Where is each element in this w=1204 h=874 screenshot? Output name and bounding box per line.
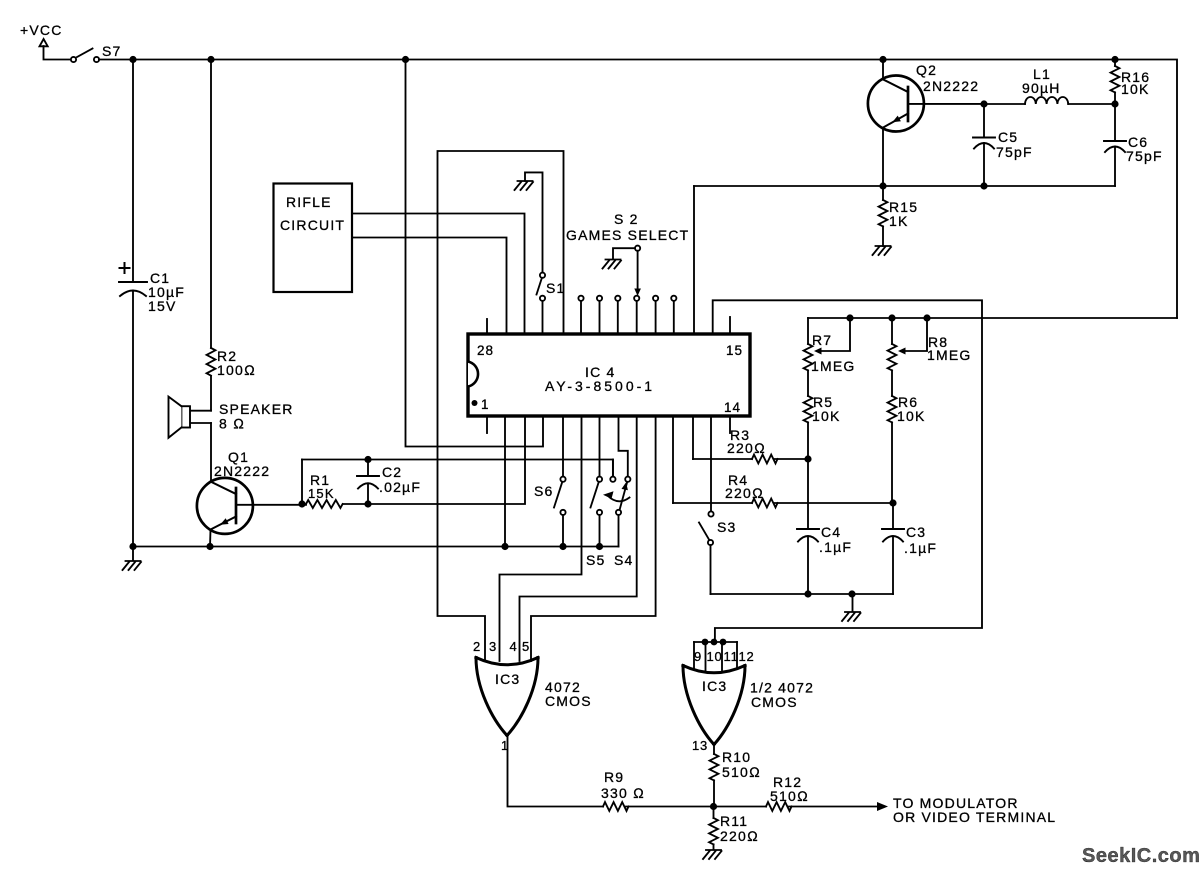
resistor R9 330 (601, 769, 645, 811)
svg-text:12: 12 (739, 649, 755, 664)
svg-text:15: 15 (726, 343, 743, 358)
node junction Q2-collector/rail (879, 56, 886, 63)
svg-text:R7: R7 (812, 332, 832, 348)
resistor R12 510 (714, 774, 809, 811)
ground (bottom-left) (123, 547, 142, 571)
node junction C2 top (364, 456, 371, 463)
wire R7/R8 top node line (y318) (808, 317, 1177, 319)
wire C4/C3 ground rail (711, 593, 894, 595)
node junction C5 bottom (980, 182, 987, 189)
svg-text:CIRCUIT: CIRCUIT (280, 217, 345, 233)
node junction gnd symbol/rail (848, 590, 855, 597)
wire IC pin to Q2 emitter rail (693, 186, 695, 334)
wire IC pin to R4 line (672, 416, 674, 503)
svg-text:75pF: 75pF (1126, 148, 1163, 164)
svg-text:C4: C4 (821, 524, 841, 540)
or-gate IC3b (1/2 4072) (683, 639, 814, 753)
node junction R3/R5/C4 (804, 455, 811, 462)
svg-text:.1µF: .1µF (819, 539, 852, 555)
svg-text:4: 4 (510, 639, 518, 654)
svg-text:IC3: IC3 (702, 678, 727, 694)
inductor L1 90uH (984, 66, 1115, 104)
resistor R5 10K (804, 370, 841, 459)
pin contact D (636, 301, 638, 334)
node junction C2 bottom (364, 500, 371, 507)
wire ground rail left (133, 546, 619, 548)
wire R4 line (673, 502, 893, 504)
wire rifle upper to IC pin (352, 214, 525, 335)
capacitor C5 75pF (973, 100, 1033, 186)
switch S1 (537, 273, 566, 334)
wire gate1 output (508, 736, 604, 807)
node junction C1/rail (129, 56, 136, 63)
svg-text:IC3: IC3 (495, 671, 520, 687)
svg-text:220Ω: 220Ω (720, 828, 759, 844)
ground (R15) (873, 246, 892, 255)
svg-text:S4: S4 (614, 552, 634, 568)
node junction R16/rail (1111, 56, 1118, 63)
svg-text:Q2: Q2 (916, 62, 937, 78)
switch S4 (selector with arrow) (603, 416, 634, 568)
svg-text:CMOS: CMOS (751, 694, 798, 710)
node junction L1/R16/C6 (1111, 100, 1118, 107)
svg-text:C3: C3 (906, 524, 926, 540)
node junction Q2 emitter/R15 (879, 182, 886, 189)
svg-text:.02µF: .02µF (379, 479, 421, 495)
resistor R16 10K (1111, 60, 1151, 105)
svg-text:CMOS: CMOS (545, 693, 592, 709)
svg-text:SeekIC.com: SeekIC.com (1082, 845, 1200, 867)
svg-text:11: 11 (724, 649, 739, 664)
svg-text:+VCC: +VCC (20, 22, 63, 38)
wire IC pin to gate1 input5 (531, 416, 656, 661)
op-amp/IC U: IC4 AY-3-8500-1 (468, 334, 750, 416)
svg-text:C5: C5 (998, 129, 1018, 145)
wire W1: IC top pin via y151 down to gate1 input2 (438, 151, 564, 661)
svg-text:1MEG: 1MEG (811, 358, 855, 374)
svg-text:330 Ω: 330 Ω (601, 785, 645, 801)
svg-text:2N2222: 2N2222 (923, 78, 979, 94)
wire R9 to junction (626, 806, 714, 808)
or-gate IC3a (4072) (473, 639, 592, 753)
svg-text:220Ω: 220Ω (727, 440, 766, 456)
wire node line y459 (C2 top to S4 throw B) (302, 460, 613, 477)
svg-text:1K: 1K (889, 213, 909, 229)
svg-text:GAMES SELECT: GAMES SELECT (566, 227, 689, 243)
svg-text:90µH: 90µH (1022, 80, 1061, 96)
svg-text:15K: 15K (308, 486, 335, 501)
wire R3 line (693, 458, 808, 460)
wire Q2 emitter rail (y186) (694, 185, 1115, 187)
svg-text:S6: S6 (534, 483, 554, 499)
node junction Q1 emitter/ground rail (206, 543, 213, 550)
ground (S1) (515, 181, 534, 190)
svg-text:10K: 10K (897, 408, 926, 424)
capacitor C2 (357, 460, 421, 505)
wire C1 top lead (132, 60, 134, 283)
svg-text:S5: S5 (586, 552, 606, 568)
resistor R11 220 (709, 807, 759, 850)
resistor R6 10K (888, 370, 926, 503)
switch S7 (71, 43, 122, 62)
node junction C1/ground rail (129, 543, 136, 550)
resistor R3 (727, 427, 777, 463)
svg-text:10K: 10K (1121, 81, 1150, 97)
svg-text:100Ω: 100Ω (217, 362, 256, 378)
svg-text:S 2: S 2 (614, 211, 639, 227)
node junction S6/ground rail (559, 543, 566, 550)
resistor R15 1K (879, 186, 919, 246)
ground (S2) (603, 260, 622, 269)
resistor R2 (207, 348, 256, 378)
node junction R2/rail (207, 56, 214, 63)
ground (R11) (703, 850, 722, 859)
svg-text:510Ω: 510Ω (722, 764, 761, 780)
svg-text:28: 28 (477, 343, 494, 358)
pin 15 stub (top) (729, 317, 731, 334)
svg-text:8 Ω: 8 Ω (219, 416, 245, 432)
svg-text:14: 14 (724, 400, 741, 415)
svg-text:R11: R11 (720, 813, 748, 829)
IC4 top contact pins (games select row) (578, 296, 676, 334)
svg-text:75pF: 75pF (996, 144, 1033, 160)
wire IC pin to gate1 input3 (500, 416, 582, 661)
svg-text:2N2222: 2N2222 (214, 463, 270, 479)
svg-text:9: 9 (694, 649, 702, 664)
capacitor C1 (119, 263, 185, 314)
node label output text (893, 795, 1056, 825)
switch S2 games select (566, 211, 689, 296)
transistor Q1 2N2222 (197, 449, 306, 547)
pin contact C (617, 301, 619, 334)
potentiometer R7 1MEG (804, 318, 856, 374)
capacitor C3 (882, 503, 937, 594)
svg-text:RIFLE: RIFLE (286, 194, 332, 210)
wire R2 bottom / collector lead (210, 376, 212, 411)
RIFLE CIRCUIT box (274, 184, 353, 293)
svg-text:R9: R9 (604, 769, 624, 785)
svg-text:15V: 15V (148, 298, 177, 314)
svg-text:R10: R10 (722, 749, 751, 765)
pin contact E (655, 301, 657, 334)
pin 28 stub (top) (486, 319, 488, 334)
node junction R1 left / C2 branch (298, 500, 305, 507)
svg-text:220Ω: 220Ω (725, 485, 764, 501)
svg-text:OR VIDEO TERMINAL: OR VIDEO TERMINAL (893, 809, 1056, 825)
wire C2-top branch vertical (301, 460, 303, 505)
wire gate2 output (713, 745, 715, 755)
node junction pin-wire/rail (402, 56, 409, 63)
wire +VCC top rail (99, 60, 1177, 319)
pin 14 stub (bottom) (729, 416, 731, 433)
wire S1 to ground (525, 172, 543, 272)
wire IC bottom pin down to +VCC branch (y446) (406, 60, 544, 447)
pin contact A (580, 301, 582, 334)
node junction S5/ground rail (596, 543, 603, 550)
svg-text:C2: C2 (382, 464, 402, 480)
svg-text:10K: 10K (812, 408, 841, 424)
switch S6 (534, 416, 566, 547)
transistor Q2 2N2222 (868, 60, 984, 187)
node junction R8 top (888, 314, 895, 321)
svg-text:1: 1 (481, 397, 490, 412)
svg-text:5: 5 (522, 639, 530, 654)
node junction R9/R10/R11/R12 (710, 803, 717, 810)
wire IC top pin to gate2 loop (right box) (713, 300, 982, 642)
wire IC pin to gate1 input4 (520, 416, 637, 661)
svg-text:2: 2 (473, 639, 481, 654)
ground (C4/C3 rail) (842, 594, 861, 621)
wire output to modulator with arrow (789, 806, 878, 808)
svg-text:3: 3 (489, 639, 497, 654)
node junction R7 wiper (846, 314, 853, 321)
svg-text:S3: S3 (717, 519, 737, 535)
svg-text:10: 10 (707, 649, 723, 664)
wire R2 top lead (210, 60, 212, 349)
wire R1 right to C2/IC pin (343, 416, 525, 504)
switch S3 (699, 416, 737, 594)
node junction C4/gnd rail (804, 590, 811, 597)
svg-text:AY-3-8500-1: AY-3-8500-1 (545, 378, 655, 394)
wire rifle lower to IC pin (352, 238, 507, 335)
speaker (169, 397, 294, 438)
node junction pin/ground rail (501, 543, 508, 550)
pin contact B (599, 301, 601, 334)
node junction R4/R6/C3 (889, 499, 896, 506)
wire C1 bottom lead (132, 291, 134, 547)
svg-text:1MEG: 1MEG (927, 347, 971, 363)
resistor R10 510 (710, 749, 761, 807)
svg-text:13: 13 (692, 738, 708, 753)
svg-text:S7: S7 (102, 43, 122, 59)
pin 1 stub (bottom) (486, 416, 488, 433)
node +VCC (20, 22, 70, 60)
svg-text:.1µF: .1µF (904, 540, 937, 556)
node junction R8 wiper (923, 314, 930, 321)
switch S5 (586, 416, 606, 568)
capacitor C4 (797, 459, 852, 594)
resistor R4 (725, 472, 777, 507)
wire IC pin to R3 line (692, 416, 694, 459)
wire IC bottom pin to ground rail (504, 416, 506, 547)
pin contact F (673, 301, 675, 334)
potentiometer R8 1MEG (888, 318, 972, 370)
resistor R1 (306, 472, 343, 508)
capacitor C6 75pF (1104, 104, 1163, 186)
